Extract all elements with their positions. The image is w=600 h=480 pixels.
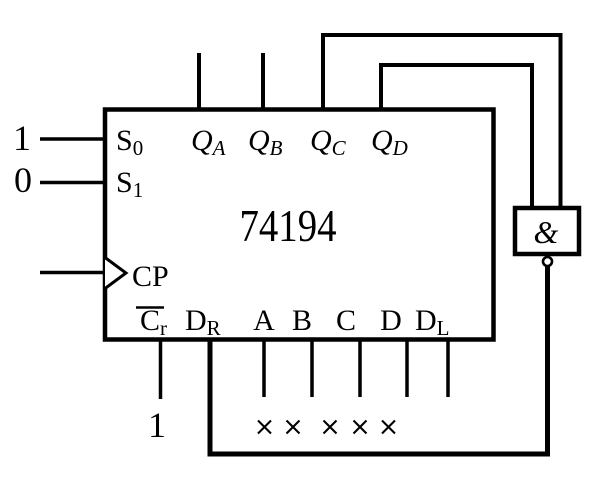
NAND gate U2 body [515, 208, 579, 254]
NAND output inversion bubble [543, 257, 552, 266]
svg-text:A: A [253, 304, 275, 337]
svg-text:C: C [336, 304, 356, 337]
svg-text:DL: DL [415, 304, 450, 340]
svg-text:&: & [534, 214, 559, 250]
svg-text:B: B [292, 304, 312, 337]
svg-text:CP: CP [132, 260, 169, 293]
feedback wire NAND output to DR [210, 267, 548, 455]
svg-text:D: D [380, 304, 402, 337]
clock edge triangle [105, 258, 126, 289]
svg-text:1: 1 [148, 405, 166, 445]
wire QC feedback to AND gate input [323, 35, 561, 208]
pin C stub [358, 341, 362, 397]
pin B stub [310, 341, 314, 397]
pin A stub [262, 341, 266, 397]
pin QA stub [197, 53, 201, 110]
svg-text:0: 0 [14, 160, 32, 200]
don't-care mark X1 on A [258, 421, 271, 434]
don't-care mark X2 [287, 421, 300, 434]
wire QD feedback to AND gate input [381, 65, 532, 208]
svg-text:DR: DR [185, 304, 221, 340]
overline of Cr [136, 306, 164, 309]
svg-text:QA: QA [191, 124, 226, 160]
svg-text:QD: QD [371, 124, 408, 160]
wire S1 input [40, 181, 107, 185]
svg-text:Cr: Cr [140, 304, 167, 340]
pin D stub [405, 341, 409, 397]
don't-care mark X3 [324, 421, 337, 434]
don't-care mark X4 [354, 421, 367, 434]
wire CP clock input [40, 271, 103, 275]
pin QB stub [261, 53, 265, 110]
wire S0 input [40, 137, 107, 141]
svg-text:1: 1 [13, 118, 31, 158]
svg-text:QB: QB [248, 124, 283, 160]
svg-text:QC: QC [310, 124, 347, 160]
svg-text:74194: 74194 [240, 201, 337, 251]
pin Cr stub [159, 341, 163, 399]
don't-care mark X5 [382, 421, 395, 434]
svg-text:S1: S1 [116, 166, 143, 202]
svg-text:S0: S0 [116, 124, 143, 160]
IC U1 74194 body [105, 110, 494, 340]
pin DL stub [446, 341, 450, 397]
